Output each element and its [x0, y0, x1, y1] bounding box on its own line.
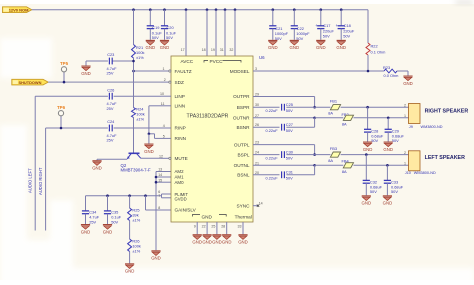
capacitor C19: [149, 10, 151, 26]
wire R24 to Q2 base: [133, 118, 135, 153]
svg-text:7: 7: [158, 194, 160, 198]
svg-text:SYNC: SYNC: [236, 203, 250, 208]
ground for pin 9: [192, 235, 202, 245]
svg-text:GND: GND: [81, 71, 91, 76]
svg-text:1: 1: [163, 67, 165, 71]
svg-text:23: 23: [255, 141, 259, 145]
svg-text:LINP: LINP: [175, 94, 185, 99]
svg-text:21: 21: [255, 161, 259, 165]
svg-text:GND: GND: [383, 147, 393, 152]
capacitor C30: [282, 151, 285, 158]
svg-text:0.22uF: 0.22uF: [266, 176, 279, 181]
svg-text:TP5: TP5: [60, 61, 69, 66]
connector J10 left speaker: [409, 151, 421, 171]
svg-text:GND: GND: [403, 81, 413, 86]
svg-text:1: 1: [404, 162, 406, 166]
svg-text:LEFT SPEAKER: LEFT SPEAKER: [425, 155, 465, 161]
svg-text:14: 14: [158, 173, 162, 177]
ground for thermal pad: [238, 235, 248, 245]
svg-text:±1%: ±1%: [136, 55, 144, 60]
wire BSNR net: [253, 126, 280, 128]
svg-text:AM0: AM0: [175, 180, 185, 185]
svg-text:GND: GND: [202, 214, 213, 219]
svg-text:AM2: AM2: [175, 169, 185, 174]
capacitor C23: [86, 60, 108, 62]
svg-text:GND: GND: [336, 45, 346, 50]
svg-text:GND: GND: [268, 45, 278, 50]
svg-text:Thermal: Thermal: [235, 214, 252, 219]
ground for C33: [383, 196, 393, 206]
pin 22 GND stub: [206, 222, 208, 234]
wire MODSEL net: [263, 70, 384, 72]
capacitor C18 polarized: [340, 10, 342, 26]
svg-text:50V: 50V: [323, 33, 330, 38]
svg-text:8A: 8A: [342, 122, 347, 127]
wire OUTPR net: [253, 96, 315, 98]
svg-text:30: 30: [255, 103, 259, 107]
pin 4 RINP stub: [161, 127, 171, 129]
svg-text:OUTNL: OUTNL: [234, 163, 250, 168]
svg-text:12V0 NOM: 12V0 NOM: [9, 8, 29, 13]
svg-text:WM3800-ND: WM3800-ND: [421, 125, 443, 129]
svg-text:GND: GND: [362, 201, 372, 206]
svg-text:±1%: ±1%: [132, 218, 140, 223]
wire AUDIO LEFT vertical: [34, 96, 36, 230]
capacitor C24: [109, 125, 112, 132]
svg-text:GND: GND: [144, 149, 154, 154]
capacitor C22: [293, 10, 295, 26]
ground for AM bus: [151, 251, 161, 261]
wire BSNL net: [253, 174, 280, 176]
wire C23 to FAULTZ node: [112, 60, 133, 62]
svg-text:WM3800-ND: WM3800-ND: [414, 171, 436, 175]
svg-text:13: 13: [158, 168, 162, 172]
svg-text:0.22uF: 0.22uF: [266, 128, 279, 133]
svg-text:BSPL: BSPL: [238, 152, 250, 157]
svg-text:17: 17: [181, 48, 185, 52]
wire AVCC feed pin 17: [185, 10, 187, 56]
svg-text:50V: 50V: [286, 176, 293, 181]
ground for C32: [362, 196, 372, 206]
wire FAULTZ net: [134, 70, 162, 72]
svg-text:OUTNR: OUTNR: [233, 116, 250, 121]
resistor R24: [133, 82, 135, 107]
svg-text:MODSEL: MODSEL: [230, 69, 250, 74]
capacitor C34: [85, 196, 87, 211]
ground for pin 22: [202, 235, 212, 245]
svg-text:PVCC: PVCC: [210, 59, 224, 64]
svg-text:50V: 50V: [391, 189, 398, 194]
resistor R26: [129, 221, 131, 240]
svg-text:GND: GND: [316, 45, 326, 50]
resistor R23: [384, 69, 397, 73]
svg-text:LINN: LINN: [175, 104, 186, 109]
port SHUTDOWN: [12, 79, 48, 85]
pin 9 GND stub: [196, 222, 198, 234]
svg-text:22: 22: [202, 224, 206, 228]
wire LINN net: [149, 105, 161, 107]
wire rail corner to R22: [367, 10, 369, 43]
wire AM bus: [155, 172, 157, 251]
pin 28 GND stub: [226, 222, 228, 234]
svg-text:GND: GND: [92, 166, 102, 171]
capacitor C17 polarized: [320, 10, 322, 26]
svg-text:0.22uF: 0.22uF: [266, 155, 279, 160]
svg-text:14: 14: [259, 202, 263, 206]
svg-text:27: 27: [255, 114, 259, 118]
svg-text:C30: C30: [286, 149, 294, 154]
svg-text:GVDD: GVDD: [175, 197, 187, 202]
svg-text:C31: C31: [286, 170, 293, 175]
pin 10 LINP stub: [161, 95, 171, 97]
ground for C18: [336, 40, 346, 50]
test point TP5: [63, 72, 65, 82]
pin 2 SDZ stub: [161, 81, 169, 83]
pin 14 SYNC stub: [253, 205, 258, 207]
ground for input bias: [144, 144, 154, 154]
svg-text:C26: C26: [107, 87, 114, 92]
svg-text:GND: GND: [222, 240, 232, 245]
svg-text:25V: 25V: [107, 71, 114, 76]
ground for C35: [103, 225, 113, 235]
ground for C21: [268, 40, 278, 50]
ground for C34: [81, 225, 91, 235]
wire BSPL net: [253, 154, 280, 156]
svg-text:2: 2: [404, 151, 406, 155]
svg-text:GND: GND: [363, 147, 373, 152]
capacitor C26: [109, 93, 112, 100]
wire PVCC feed pin 19: [215, 10, 217, 56]
wire SDZ net: [48, 81, 161, 83]
pin 3 MODSEL stub: [253, 70, 263, 72]
resistor R25: [129, 196, 131, 208]
ground for C29: [383, 142, 393, 152]
capacitor C33: [386, 165, 388, 180]
svg-text:MMBT3904-7-F: MMBT3904-7-F: [121, 168, 151, 173]
wire FAULTZ node to SDZ crossing: [133, 71, 135, 82]
svg-text:GND: GND: [103, 229, 113, 234]
capacitor C31: [282, 171, 285, 178]
svg-text:12: 12: [159, 154, 163, 158]
svg-text:19: 19: [211, 48, 215, 52]
svg-text:R23: R23: [383, 65, 390, 70]
ground for R26: [125, 264, 135, 274]
capacitor C35: [107, 196, 109, 211]
ground for pin 28: [222, 235, 232, 245]
svg-text:0.1 Ohm: 0.1 Ohm: [371, 50, 386, 55]
svg-text:R22: R22: [371, 44, 378, 49]
ground for pin 25: [212, 235, 222, 245]
svg-text:U6: U6: [259, 55, 265, 60]
capacitor C32: [365, 155, 367, 181]
svg-text:3: 3: [255, 67, 257, 71]
svg-text:OUTPR: OUTPR: [233, 94, 250, 99]
wire PVCC feed pin 18: [206, 10, 208, 56]
svg-text:1: 1: [404, 114, 406, 118]
wire PLIMIT GVDD net: [86, 195, 162, 197]
svg-text:50V: 50V: [286, 128, 293, 133]
ground for C28: [363, 142, 373, 152]
svg-text:25V: 25V: [107, 138, 114, 143]
wire OUTNR net: [253, 117, 315, 119]
port 12V0 NOM: [3, 7, 32, 13]
capacitor C28: [367, 107, 369, 129]
svg-text:50V: 50V: [111, 219, 118, 224]
wire OUTNL net: [253, 164, 315, 166]
test point TP6: [60, 116, 62, 128]
svg-text:RINN: RINN: [175, 136, 186, 141]
transistor Q2: [127, 153, 141, 159]
svg-text:50V: 50V: [152, 35, 159, 40]
capacitor C20: [164, 10, 166, 26]
svg-text:9: 9: [194, 224, 196, 228]
wire FB2 to right speaker pin 1: [354, 117, 409, 119]
wire GAIN SLV net: [145, 196, 147, 210]
svg-text:0.22uF: 0.22uF: [266, 108, 279, 113]
svg-text:RIGHT SPEAKER: RIGHT SPEAKER: [425, 108, 469, 114]
svg-text:SHUTDOWN: SHUTDOWN: [19, 80, 42, 85]
svg-text:5: 5: [163, 134, 165, 138]
svg-text:25V: 25V: [89, 219, 96, 224]
wire OUTPL net: [253, 144, 315, 146]
wire FB1 to right speaker pin 2: [341, 106, 409, 108]
svg-text:RINP: RINP: [175, 126, 186, 131]
resistor R21: [133, 10, 135, 45]
svg-text:GAIN/SLV: GAIN/SLV: [175, 208, 197, 213]
wire RINN net: [155, 137, 162, 139]
wire PVCC feed pin 32: [234, 10, 236, 56]
svg-text:GND: GND: [81, 229, 91, 234]
svg-text:8A: 8A: [328, 158, 333, 163]
svg-text:50V: 50V: [343, 33, 350, 38]
capacitor C25: [282, 104, 285, 111]
svg-text:20: 20: [255, 171, 259, 175]
svg-text:8A: 8A: [328, 111, 333, 116]
svg-text:GND: GND: [290, 45, 300, 50]
svg-text:BSPR: BSPR: [237, 105, 250, 110]
svg-text:0.0 Ohm: 0.0 Ohm: [384, 73, 399, 78]
svg-text:50V: 50V: [370, 189, 377, 194]
ground for C20: [160, 40, 170, 50]
svg-text:15: 15: [158, 178, 162, 182]
svg-text:AM1: AM1: [175, 175, 185, 180]
wire FB4 to left speaker pin 1: [354, 164, 409, 166]
svg-text:28: 28: [221, 224, 225, 228]
svg-text:±1%: ±1%: [136, 117, 144, 122]
pin 12 MUTE stub: [161, 157, 169, 159]
svg-text:2: 2: [404, 104, 406, 108]
wire RINN to ground: [148, 134, 150, 144]
svg-text:GND: GND: [192, 240, 202, 245]
svg-text:50V: 50V: [392, 138, 399, 143]
wire RINP net: [46, 127, 108, 129]
svg-text:SDZ: SDZ: [175, 80, 185, 85]
ground for C19: [146, 40, 156, 50]
svg-text:FB1: FB1: [330, 99, 337, 104]
svg-text:29: 29: [255, 93, 259, 97]
capacitor C21: [272, 10, 274, 26]
wire FB3 to left speaker pin 2: [341, 154, 409, 156]
svg-text:50V: 50V: [286, 108, 293, 113]
svg-text:J9: J9: [409, 125, 413, 129]
wire MUTE net: [141, 157, 161, 159]
svg-text:AVCC: AVCC: [181, 59, 194, 64]
wire Q2 emitter to ground: [97, 158, 127, 160]
svg-text:31: 31: [220, 48, 224, 52]
svg-text:24: 24: [255, 151, 259, 155]
wire R21 to FAULTZ node: [133, 58, 135, 71]
svg-text:GND: GND: [125, 269, 135, 274]
svg-text:GND: GND: [146, 45, 156, 50]
svg-text:11: 11: [161, 102, 165, 106]
connector J9 right speaker: [409, 104, 421, 124]
svg-text:GND: GND: [212, 240, 222, 245]
svg-text:8A: 8A: [342, 169, 347, 174]
svg-text:AUDIO LEFT: AUDIO LEFT: [28, 168, 33, 193]
wire BSPR net: [253, 106, 280, 108]
svg-text:FAULTZ: FAULTZ: [175, 69, 192, 74]
svg-text:AUDIO RIGHT: AUDIO RIGHT: [38, 167, 43, 195]
svg-text:C27: C27: [286, 122, 293, 127]
svg-text:26: 26: [255, 123, 259, 127]
pin 33 thermal stub: [242, 222, 244, 234]
window artifact top right: [455, 0, 474, 5]
svg-text:±1%: ±1%: [132, 249, 140, 254]
svg-text:50V: 50V: [286, 155, 293, 160]
pin 5 RINN stub: [161, 137, 171, 139]
svg-text:J10: J10: [405, 171, 411, 175]
svg-text:4: 4: [163, 124, 165, 128]
svg-text:25V: 25V: [107, 106, 114, 111]
svg-text:GND: GND: [383, 201, 393, 206]
svg-text:FB3: FB3: [330, 146, 337, 151]
wire 12V rail: [32, 9, 368, 11]
svg-text:GND: GND: [151, 256, 161, 261]
svg-text:32: 32: [229, 48, 233, 52]
svg-text:BSNL: BSNL: [237, 173, 250, 178]
svg-text:MUTE: MUTE: [175, 156, 188, 161]
svg-text:GND: GND: [160, 45, 170, 50]
svg-text:2: 2: [164, 78, 166, 82]
svg-text:18: 18: [202, 48, 206, 52]
wire LINP net: [35, 95, 108, 97]
pin 11 LINN stub: [161, 105, 171, 107]
svg-text:BSNR: BSNR: [236, 125, 250, 130]
ground for C17: [316, 40, 326, 50]
svg-text:TP6: TP6: [57, 105, 66, 110]
ground for C23: [85, 61, 87, 66]
pin 25 GND stub: [216, 222, 218, 234]
svg-text:25: 25: [211, 224, 215, 228]
svg-text:C24: C24: [107, 119, 115, 124]
wire AUDIO RIGHT vertical: [45, 128, 47, 231]
svg-text:C23: C23: [107, 52, 114, 57]
pin 1 FAULTZ stub: [161, 70, 169, 72]
svg-text:10: 10: [160, 92, 164, 96]
svg-text:TPA3118D2DAPR: TPA3118D2DAPR: [187, 114, 229, 120]
svg-text:8: 8: [158, 206, 160, 210]
capacitor C27: [282, 124, 285, 131]
ground for Q2 emitter: [96, 158, 98, 161]
op-amp U6 TPA3118D2DAPR body: [171, 56, 253, 222]
wire PVCC feed pin 31: [224, 10, 226, 56]
svg-text:50V: 50V: [371, 138, 378, 143]
wire R26 to ground: [129, 252, 131, 264]
svg-text:33: 33: [238, 224, 242, 228]
capacitor C29: [387, 118, 389, 130]
svg-text:GND: GND: [202, 240, 212, 245]
ground for C22: [290, 40, 300, 50]
svg-text:OUTPL: OUTPL: [234, 142, 250, 147]
ground for MODSEL network: [403, 76, 413, 86]
svg-text:C25: C25: [286, 102, 293, 107]
svg-text:50V: 50V: [166, 35, 173, 40]
resistor R22: [366, 43, 370, 55]
svg-text:GND: GND: [238, 240, 248, 245]
wire R23 to ground: [397, 70, 408, 72]
